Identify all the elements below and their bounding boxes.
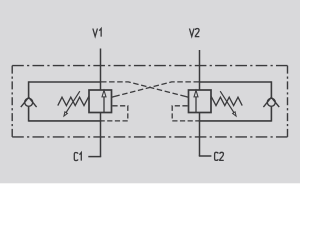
drain loop right (dashed) <box>172 106 199 121</box>
node C1 port line <box>100 113 102 157</box>
wire right loop top <box>199 81 271 83</box>
valve body right counterbalance cartridge <box>189 90 212 113</box>
node V2 port line <box>199 50 201 90</box>
pilot stub at right valve <box>186 96 189 99</box>
wire right loop bottom <box>199 120 272 122</box>
spring right (adjustable) <box>211 97 243 105</box>
label V2 <box>189 29 199 37</box>
pilot line right-to-left (dashed crossover B) <box>112 82 199 97</box>
pilot line left-to-right (dashed crossover A) <box>101 82 188 97</box>
subplate dash-dot border top <box>12 65 287 67</box>
drain loop left (dashed) <box>101 106 128 121</box>
node V1 port line <box>100 49 102 91</box>
subplate dash-dot border right <box>287 66 289 137</box>
node C2 port line <box>199 113 201 157</box>
adjustment arrow left <box>64 91 80 116</box>
label C1 <box>74 153 81 161</box>
check valve left <box>21 97 37 107</box>
valve body left counterbalance cartridge <box>89 90 112 113</box>
subplate dash-dot border left <box>11 66 13 137</box>
wire left loop side <box>28 81 30 121</box>
pilot stub at left valve <box>112 96 115 99</box>
flow arrow in left valve <box>102 90 106 112</box>
wire left loop top <box>29 81 101 83</box>
gray drawing background <box>0 0 300 183</box>
wire right loop side <box>270 81 272 121</box>
wire C2 tick <box>199 155 212 157</box>
wire C1 tick <box>88 156 101 158</box>
label V1 <box>93 29 101 37</box>
adjustment arrow right <box>220 91 236 116</box>
wire left loop bottom <box>29 120 102 122</box>
spring left (adjustable) <box>58 97 90 105</box>
flow arrow in right valve <box>194 90 198 112</box>
subplate dash-dot border bottom <box>12 136 287 138</box>
label C2 <box>215 152 224 160</box>
check valve right <box>263 97 279 107</box>
